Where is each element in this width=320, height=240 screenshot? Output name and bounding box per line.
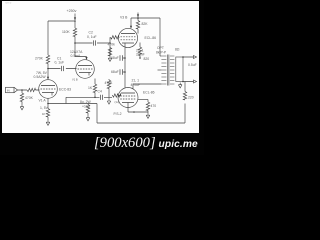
svg-text:IN: IN xyxy=(7,89,10,93)
svg-text:8Ω: 8Ω xyxy=(175,48,180,52)
svg-text:V3 B: V3 B xyxy=(120,16,128,20)
svg-text:V1 A: V1 A xyxy=(39,99,47,103)
svg-text:0, 1uF: 0, 1uF xyxy=(87,35,97,39)
svg-text:270K: 270K xyxy=(35,57,44,61)
svg-text:ECL-86: ECL-86 xyxy=(145,36,157,40)
svg-text:V1 B: V1 B xyxy=(72,78,78,82)
svg-text:+250v: +250v xyxy=(67,9,77,13)
svg-text:0.5uF: 0.5uF xyxy=(188,63,197,67)
svg-text:0.5mA: 0.5mA xyxy=(71,54,82,58)
svg-text:ECC-83: ECC-83 xyxy=(59,88,71,92)
svg-text:un o: un o xyxy=(6,1,12,5)
svg-text:470K: 470K xyxy=(105,81,114,85)
svg-text:OPT: OPT xyxy=(157,46,164,50)
svg-text:0, 1uF: 0, 1uF xyxy=(55,61,65,65)
svg-text:1, 5V: 1, 5V xyxy=(40,106,49,110)
svg-text:820: 820 xyxy=(144,57,150,61)
svg-text:8k P-P: 8k P-P xyxy=(156,51,167,55)
svg-text:1K: 1K xyxy=(88,86,93,90)
svg-text:22mF: 22mF xyxy=(136,53,145,57)
svg-text:110K: 110K xyxy=(62,30,70,34)
svg-text:82K: 82K xyxy=(142,22,149,26)
svg-text:68uF: 68uF xyxy=(111,56,119,60)
svg-text:(1u): (1u) xyxy=(115,100,120,104)
svg-text:P.S-2: P.S-2 xyxy=(114,112,122,116)
svg-text:68uF: 68uF xyxy=(111,70,119,74)
svg-text:C4: C4 xyxy=(98,90,102,94)
svg-text:470: 470 xyxy=(151,104,157,108)
svg-text:220: 220 xyxy=(188,96,194,100)
svg-text:ECL-86: ECL-86 xyxy=(143,91,155,95)
svg-text:0.5A2W: 0.5A2W xyxy=(34,75,47,79)
svg-text:470K: 470K xyxy=(25,96,34,100)
svg-text:470uF: 470uF xyxy=(131,83,141,87)
svg-text:470k: 470k xyxy=(108,43,116,47)
svg-text:+10u: +10u xyxy=(82,105,90,109)
svg-text:1K: 1K xyxy=(42,112,46,116)
svg-text:8u, 2W: 8u, 2W xyxy=(80,100,92,104)
svg-text:21, 1: 21, 1 xyxy=(132,79,140,83)
svg-text:C2: C2 xyxy=(89,31,93,35)
